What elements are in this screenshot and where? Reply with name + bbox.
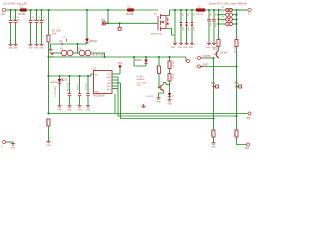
node junction pin2 — [235, 65, 237, 67]
wire rail L2 to T1 — [134, 9, 158, 11]
wire R1 down to bus — [48, 42, 50, 113]
ground GND C11 — [206, 43, 211, 49]
node rail junction C2 — [14, 9, 16, 11]
resistor R1 — [45, 29, 61, 42]
node bus L7 — [217, 14, 219, 16]
svg-text:R7 1k: R7 1k — [172, 74, 174, 80]
wire bundle 3 — [121, 83, 214, 119]
node junction VIN bus — [47, 75, 49, 77]
ground GND wireA — [48, 49, 53, 54]
wire C corner down — [134, 57, 146, 66]
LED D9 — [135, 57, 148, 66]
node junction pad — [119, 22, 121, 24]
wire corner to pin — [185, 57, 188, 61]
svg-text:IRLML6402: IRLML6402 — [151, 34, 163, 36]
capacitor C1 — [9, 10, 16, 44]
svg-text:BC817: BC817 — [221, 52, 229, 54]
svg-text:VIN: VIN — [94, 74, 98, 76]
svg-text:GND: GND — [67, 109, 72, 111]
inductor L7 — [219, 12, 237, 17]
capacitor C4 — [35, 10, 41, 44]
node bus junction C6 — [68, 75, 70, 77]
wire stub between wireA and wireB — [77, 44, 79, 53]
node bus junction LED — [58, 75, 60, 77]
svg-text:742792: 742792 — [126, 13, 135, 16]
ground GND C4 — [34, 44, 39, 49]
resistor R3 — [215, 40, 220, 55]
IC1 regulator box — [92, 67, 113, 98]
ground GND C3 — [28, 44, 33, 49]
svg-text:TP2: TP2 — [118, 63, 123, 65]
node rail junction C12 — [213, 9, 215, 11]
connector pin JP3 pin2 — [245, 143, 250, 150]
svg-text:C6 100n: C6 100n — [66, 83, 68, 92]
capacitor C2 — [14, 10, 20, 44]
wire bus 218.5 down to R3 — [218, 24, 220, 40]
ground GND C6 — [67, 106, 72, 112]
wire left bus rows — [218, 10, 220, 24]
svg-text:GND: GND — [206, 47, 211, 49]
svg-text:GND: GND — [203, 64, 209, 67]
svg-text:BC817: BC817 — [147, 96, 154, 98]
svg-text:C8 10u: C8 10u — [85, 83, 87, 91]
test point TP4 — [211, 83, 219, 88]
ground GND T2 — [156, 98, 161, 104]
wire bundle 2 — [118, 77, 237, 116]
capacitor C12 — [212, 10, 216, 43]
wire source to rail — [166, 10, 170, 16]
svg-text:GND: GND — [189, 47, 194, 49]
ground GND C7 — [77, 106, 82, 112]
node bus L8 — [217, 18, 219, 20]
wire R5 stub — [158, 57, 160, 66]
inductor L5 — [78, 48, 91, 56]
wire R4 down — [236, 47, 238, 131]
svg-text:R9 10k: R9 10k — [233, 130, 235, 138]
wire rail to divider R1 — [48, 10, 50, 35]
ground GND C12 — [212, 43, 217, 49]
svg-text:GND: GND — [178, 47, 183, 49]
resistor R5 — [156, 66, 161, 74]
svg-text:BC807: BC807 — [135, 59, 143, 62]
transistor T1 P-MOSFET — [151, 13, 169, 36]
ground GND R8 — [211, 143, 216, 149]
connector pin JP2 pin1 — [195, 55, 211, 60]
node junction base — [158, 86, 160, 88]
node junction wireC — [47, 56, 49, 58]
node rail junction C5 — [40, 9, 42, 11]
resistor R8 — [210, 130, 215, 138]
capacitor C3 — [29, 10, 36, 44]
wire branch to ADJ — [114, 94, 116, 114]
node rail junction D3 — [86, 9, 88, 11]
connector pin JP3 pin1 — [247, 112, 252, 120]
inductor L4 — [60, 48, 73, 56]
ground GND LED — [57, 106, 62, 112]
capacitor C8 — [85, 76, 90, 106]
svg-text:GND: GND — [28, 48, 33, 50]
svg-text:742792: 742792 — [196, 14, 204, 16]
svg-text:TP4: TP4 — [211, 83, 216, 85]
node bus L9 — [217, 23, 219, 25]
node bus junction C7 — [78, 75, 80, 77]
wire bus lower — [236, 24, 238, 40]
svg-text:USB 5V: USB 5V — [203, 55, 212, 58]
svg-text:R4 10k: R4 10k — [233, 47, 235, 55]
diode D3 — [85, 10, 97, 44]
wire feedback y113 — [49, 113, 249, 115]
wire T2 emitter to GND — [159, 91, 164, 98]
node rail junction Lbus left — [217, 9, 219, 11]
TVS diode D7 — [190, 10, 194, 43]
wire +5V input rail — [8, 9, 20, 11]
svg-text:R6 1k: R6 1k — [172, 62, 174, 68]
capacitor C5 — [40, 10, 46, 44]
wire R8 to GND — [213, 137, 215, 143]
svg-text:IC1: IC1 — [92, 67, 97, 71]
svg-text:R2 10k: R2 10k — [45, 119, 47, 127]
svg-text:GND: GND — [94, 91, 99, 93]
wire T2 collector join — [164, 83, 170, 85]
node junction T3 emitter — [212, 57, 214, 59]
resistor R6 — [168, 61, 174, 69]
node rail junction D6 — [185, 9, 187, 11]
svg-text:1u: 1u — [43, 19, 45, 21]
wire drain stub — [166, 29, 175, 36]
svg-text:GND: GND — [13, 48, 18, 50]
node rail junction D4 — [174, 9, 176, 11]
svg-text:R5 3k: R5 3k — [156, 66, 158, 72]
ground GND 175 — [171, 43, 177, 49]
svg-text:GREEN: GREEN — [137, 79, 145, 81]
node right bus row2 — [235, 14, 237, 16]
node junction y116 — [235, 115, 237, 117]
svg-text:GND: GND — [183, 47, 188, 49]
connector pin J2 — [248, 8, 251, 15]
ground GND mid cluster — [142, 104, 146, 108]
svg-text:J2out 5V+-10%, max 400mA: J2out 5V+-10%, max 400mA — [209, 2, 247, 6]
svg-text:Csm 2mA: Csm 2mA — [137, 81, 147, 84]
polarized cap tick — [66, 39, 68, 42]
wire VIN bus — [49, 75, 92, 77]
ferrite bead L2 — [126, 5, 135, 16]
svg-text:TP1: TP1 — [101, 20, 106, 22]
svg-text:742792: 742792 — [18, 13, 27, 16]
wire between L4 L5 — [73, 52, 79, 54]
connector pin J1 pin1 — [1, 8, 8, 16]
svg-text:J1n 5V+5%, max 1,5A: J1n 5V+5%, max 1,5A — [3, 2, 27, 5]
node rail junction TP1 — [107, 9, 109, 11]
svg-text:U-LED: U-LED — [137, 76, 144, 78]
ground GND D8 — [167, 100, 172, 106]
wire rail after L1 — [27, 9, 127, 11]
ferrite bead L1 — [18, 5, 27, 16]
wire right bus rows — [236, 10, 238, 24]
test point TP2 — [118, 63, 123, 74]
node right bus row3 — [235, 18, 237, 20]
ferrite bead L3 — [196, 5, 206, 16]
inductor L6 row1 on rail — [222, 7, 233, 12]
wire A node — [51, 41, 87, 49]
ground GND C5 — [39, 44, 44, 49]
wire R9 to pin — [237, 137, 247, 145]
node junction R5 top — [158, 56, 160, 58]
node junction R6 top — [168, 56, 170, 58]
ground GND R2 — [46, 141, 51, 147]
node right bus row1 — [235, 9, 237, 11]
svg-text:GND: GND — [86, 109, 91, 111]
ground GND wireB — [50, 53, 55, 58]
wire B chain — [52, 52, 61, 54]
connector pin J1 pin2 — [1, 141, 8, 149]
node junction B-C — [103, 56, 105, 58]
svg-text:GND: GND — [46, 145, 51, 147]
resistor R2 divider lower — [45, 119, 50, 127]
diode D8 — [168, 93, 176, 100]
ground GND C8 — [86, 106, 91, 112]
wire R5 to base node — [158, 74, 160, 88]
svg-text:1u: 1u — [63, 37, 65, 39]
transistor T2 — [147, 84, 164, 98]
node right bus row4 — [235, 23, 237, 25]
resistor R4 — [233, 40, 238, 55]
svg-text:GND: GND — [156, 101, 161, 103]
capacitor C11 — [207, 10, 211, 43]
wire vertical plain to gnd — [174, 10, 176, 43]
pad jumper — [118, 23, 121, 30]
node junction feedback — [47, 112, 49, 114]
wire R3 to T3 — [218, 47, 220, 51]
svg-text:BZX84: BZX84 — [90, 40, 98, 43]
svg-text:GND: GND — [211, 146, 216, 148]
svg-text:C7 10u: C7 10u — [76, 83, 78, 91]
ground GND D5 — [178, 43, 183, 49]
node junction x134 — [133, 56, 135, 58]
ground GND D7 — [189, 43, 194, 49]
wire B to wire C — [91, 53, 105, 57]
capacitor C6 — [66, 76, 71, 106]
connector pin JP2 pin2 — [195, 64, 208, 69]
wire pin to T3 node — [203, 57, 215, 59]
svg-text:GND: GND — [57, 109, 62, 111]
transistor T3 — [213, 49, 229, 58]
connector pin JP4 — [187, 60, 193, 64]
node junction y118.5 — [212, 117, 214, 119]
svg-text:GND: GND — [167, 103, 172, 105]
test point TP5 — [234, 83, 242, 88]
node bus junction C8 — [87, 75, 89, 77]
ground GND D6 — [183, 43, 188, 49]
svg-text:MIC2941A: MIC2941A — [93, 95, 105, 98]
node rail junction C4 — [35, 9, 37, 11]
svg-text:R8 10k: R8 10k — [210, 130, 212, 138]
LED D1 — [58, 76, 69, 106]
wire R7 down to D8 — [169, 81, 171, 93]
node rail junction R1 — [47, 9, 49, 11]
svg-text:LED green: LED green — [54, 87, 57, 98]
svg-text:GND: GND — [11, 147, 16, 149]
svg-text:ADJ: ADJ — [107, 88, 111, 91]
ground GND C1 — [8, 44, 13, 49]
wire R6 stub — [169, 57, 171, 61]
wire rail right section — [170, 9, 249, 11]
capacitor C7 — [76, 76, 81, 106]
node junction gate wire — [107, 22, 109, 24]
wire gate — [108, 22, 158, 24]
node rail junction C1 — [9, 9, 11, 11]
node junction LED top — [145, 56, 147, 58]
node rail junction C3 — [29, 9, 31, 11]
wire C horizontal — [49, 56, 147, 58]
wire R2 to GND — [48, 126, 50, 141]
resistor R7 — [168, 74, 174, 82]
node rail junction C11 — [208, 9, 210, 11]
node rail junction D7 — [191, 9, 193, 11]
test point TP1 — [101, 20, 108, 25]
wire pin2 to bus — [203, 66, 237, 68]
svg-text:10u: 10u — [17, 19, 20, 21]
wire IC pin stubs right — [112, 73, 120, 75]
ground GND C2 — [13, 44, 18, 49]
node rail junction D5 — [180, 9, 182, 11]
wire rail to gate — [107, 10, 109, 23]
wire J1 pin2 to GND — [8, 141, 14, 143]
inductor L8 — [219, 16, 237, 21]
node junction wireA — [76, 43, 78, 45]
ground GND J1 — [11, 142, 16, 149]
svg-text:GND: GND — [77, 109, 82, 111]
TVS diode D6 — [185, 10, 189, 43]
svg-text:GND: GND — [39, 48, 44, 50]
TVS diode D5 — [179, 10, 183, 43]
wire between R6 R7 — [169, 69, 171, 74]
wire to output pin — [237, 9, 249, 11]
wire divider vertical left — [213, 58, 215, 130]
wire C extension right — [146, 56, 186, 58]
svg-text:GND: GND — [171, 47, 176, 49]
resistor R9 — [233, 130, 238, 138]
svg-text:max 1A: max 1A — [50, 81, 59, 84]
inductor L9 — [219, 21, 237, 26]
